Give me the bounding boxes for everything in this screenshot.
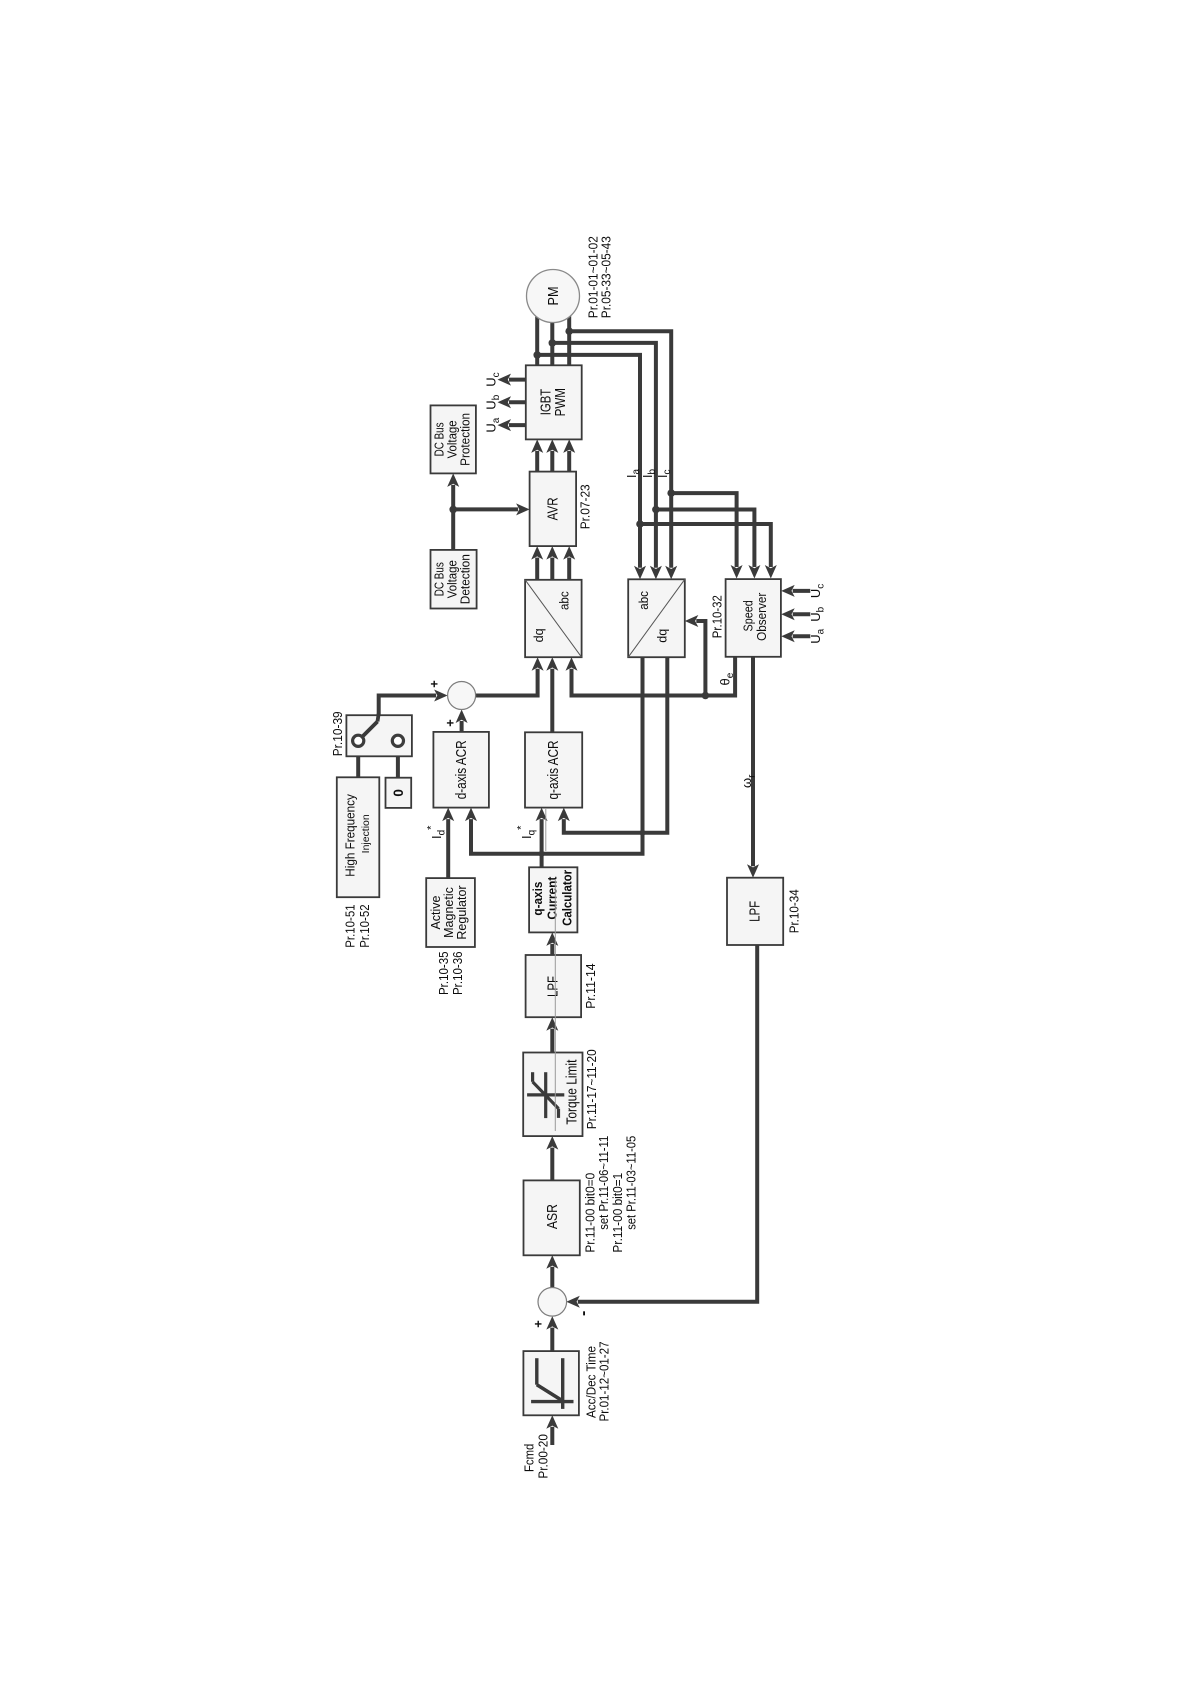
- svg-text:ASR: ASR: [544, 1204, 561, 1229]
- block abc to dq transform: [628, 579, 685, 657]
- wire Id* Active Magnetic Regulator to d-axis ACR: [446, 819, 450, 878]
- svg-text:Pr.05-33~05-43: Pr.05-33~05-43: [599, 236, 614, 318]
- wire IGBT PWM output Ub: [509, 400, 526, 404]
- block AVR: [530, 472, 577, 547]
- wire iq feedback from abc-dq transform to q-axis ACR: [564, 657, 668, 833]
- summing junction 2: [448, 682, 476, 710]
- wire current branch Ic to Speed Observer: [671, 493, 736, 567]
- wire dq-abc to AVR phase c: [567, 558, 571, 580]
- block LPF Pr.11-14: [526, 955, 582, 1017]
- wire AVR to IGBT PWM phase c: [567, 451, 571, 472]
- wire ASR to Torque Limit: [550, 1148, 554, 1181]
- block q-axis Current Calculator: [529, 867, 577, 932]
- svg-text:Active: Active: [429, 895, 443, 929]
- svg-text:dq: dq: [656, 629, 670, 643]
- wire dq-abc to AVR phase a: [535, 558, 539, 580]
- thin connector line near q-axis ACR: [545, 809, 547, 851]
- svg-text:Speed: Speed: [742, 600, 756, 631]
- svg-text:AVR: AVR: [545, 497, 562, 520]
- svg-text:q-axis: q-axis: [531, 882, 545, 916]
- svg-text:High Frequency: High Frequency: [344, 793, 358, 876]
- svg-text:abc: abc: [637, 591, 651, 610]
- svg-text:Pr.10-35: Pr.10-35: [436, 952, 451, 996]
- wire AVR to IGBT PWM phase b: [550, 451, 554, 472]
- wire omega-r Speed Observer to LPF Pr.10-34: [751, 656, 755, 866]
- block zero: [386, 778, 412, 808]
- svg-text:Pr.11-14: Pr.11-14: [583, 963, 598, 1008]
- svg-text:Observer: Observer: [755, 593, 769, 641]
- junction dot tap phase a: [533, 351, 541, 359]
- wire id feedback from abc-dq transform to d-axis ACR: [471, 657, 643, 854]
- wire IGBT PWM to PM motor phase b: [550, 302, 554, 365]
- svg-text:PWM: PWM: [552, 388, 569, 416]
- svg-text:Regulator: Regulator: [455, 885, 469, 939]
- block IGBT PWM: [526, 365, 582, 439]
- svg-text:Pr.11-17~11-20: Pr.11-17~11-20: [584, 1049, 599, 1129]
- wire speed feedback LPF Pr.10-34 to summing junction 1: [578, 945, 757, 1302]
- block DC Bus Voltage Protection: [431, 405, 476, 473]
- svg-text:Injection: Injection: [361, 814, 372, 853]
- wire Ub input to Speed Observer: [793, 612, 811, 616]
- svg-text:Pr.10-34: Pr.10-34: [786, 889, 801, 933]
- svg-text:Protection: Protection: [459, 413, 473, 466]
- switch lever: [361, 722, 378, 739]
- junction dot branch Ic: [667, 489, 675, 497]
- svg-text:Pr.00-20: Pr.00-20: [536, 1434, 551, 1479]
- junction dot iq/id crossing: [640, 830, 646, 836]
- wire theta-e branch to abc-dq transform: [696, 621, 705, 696]
- svg-text:Pr.10-52: Pr.10-52: [357, 904, 372, 947]
- svg-text:q-axis ACR: q-axis ACR: [546, 741, 562, 800]
- block LPF Pr.10-34: [727, 878, 783, 945]
- svg-text:Voltage: Voltage: [446, 420, 460, 458]
- svg-text:Pr.10-32: Pr.10-32: [709, 595, 724, 638]
- svg-text:Voltage: Voltage: [446, 560, 460, 598]
- block Speed Observer: [726, 579, 781, 657]
- svg-text:dq: dq: [532, 628, 546, 642]
- wire IGBT PWM output Uc: [509, 378, 526, 382]
- block ASR: [524, 1180, 580, 1255]
- svg-text:+: +: [427, 680, 442, 688]
- svg-text:Pr.10-51: Pr.10-51: [343, 904, 358, 947]
- junction dot tap phase b: [549, 339, 557, 347]
- wire current branch Ib to Speed Observer: [656, 510, 755, 568]
- wire Torque Limit to LPF: [550, 1029, 554, 1053]
- wire switch to summing junction 2: [379, 696, 436, 716]
- svg-text:Current: Current: [546, 876, 560, 920]
- svg-text:0: 0: [391, 789, 406, 797]
- svg-text:Pr.10-39: Pr.10-39: [330, 711, 345, 756]
- summing junction 1: [538, 1288, 567, 1317]
- svg-text:Magnetic: Magnetic: [442, 887, 456, 938]
- wire LPF to q-axis Current Calculator: [550, 944, 554, 955]
- wire Fcmd input: [550, 1427, 554, 1445]
- svg-text:+: +: [531, 1320, 546, 1328]
- junction dot branch Ia: [636, 520, 644, 528]
- block q-axis ACR: [525, 732, 582, 807]
- PM motor: [527, 270, 580, 323]
- block Active Magnetic Regulator: [426, 878, 475, 947]
- wire Acc/Dec Time to summing junction 1: [550, 1328, 554, 1352]
- wire current Ic tap to abc-dq transform: [569, 331, 671, 568]
- svg-text:Pr.01-12~01-27: Pr.01-12~01-27: [597, 1342, 612, 1422]
- svg-text:LPF: LPF: [545, 976, 562, 997]
- wire dq-abc to AVR phase b: [550, 558, 554, 580]
- wire Iq* q-axis Current Calculator to q-axis ACR: [540, 819, 544, 867]
- wire current Ib tap to abc-dq transform: [552, 343, 656, 568]
- wire 0 block to switch terminal 2: [396, 746, 400, 777]
- wire High Frequency Injection to switch terminal 1: [356, 746, 360, 777]
- wire AVR to IGBT PWM phase a: [535, 451, 539, 472]
- junction dot branch Ib: [652, 506, 660, 514]
- svg-text:LPF: LPF: [747, 901, 764, 922]
- switch terminal 2: [392, 735, 403, 746]
- wire IGBT PWM output Ua: [509, 423, 526, 427]
- wire IGBT PWM to PM motor phase c: [567, 302, 571, 365]
- wire DC bus to AVR: [453, 507, 518, 511]
- wire IGBT PWM to PM motor phase a: [535, 302, 539, 365]
- svg-text:DC Bus: DC Bus: [433, 562, 447, 596]
- svg-text:+: +: [443, 719, 458, 727]
- svg-text:-: -: [575, 1311, 592, 1316]
- svg-text:Pr.07-23: Pr.07-23: [578, 484, 593, 529]
- thin connector line through Torque Limit, LPF and q-axis Current Calculator: [554, 879, 556, 1131]
- svg-text:Torque Limit: Torque Limit: [565, 1060, 581, 1125]
- wire Uc input to Speed Observer: [793, 589, 811, 593]
- block d-axis ACR: [433, 732, 489, 808]
- svg-text:Detection: Detection: [459, 554, 473, 604]
- wire q-axis ACR to dq-abc transform: [550, 669, 554, 733]
- junction dot theta-e branch: [702, 692, 710, 700]
- junction dot Iq*/id crossing: [539, 851, 545, 857]
- wire d-axis ACR to summing junction 2: [460, 721, 464, 732]
- svg-text:set Pr.11-03~11-05: set Pr.11-03~11-05: [624, 1136, 639, 1230]
- svg-text:abc: abc: [558, 591, 572, 610]
- svg-text:d-axis ACR: d-axis ACR: [454, 740, 470, 799]
- block switch Pr.10-39: [346, 715, 412, 756]
- junction dot DC bus: [449, 506, 457, 514]
- block Torque Limit: [523, 1053, 582, 1137]
- wire summing junction 1 to ASR: [550, 1267, 554, 1288]
- svg-text:PM: PM: [546, 287, 562, 306]
- svg-text:DC Bus: DC Bus: [433, 422, 447, 456]
- wire current branch Ia to Speed Observer: [640, 524, 771, 567]
- block dq to abc transform: [525, 580, 582, 657]
- block DC Bus Voltage Detection: [431, 550, 477, 609]
- wire DC Bus Voltage Detection to Protection: [451, 485, 455, 550]
- wire current Ia tap to abc-dq transform: [537, 355, 640, 568]
- svg-text:Calculator: Calculator: [561, 870, 575, 926]
- junction dot tap phase c: [565, 327, 573, 335]
- wire summing junction 2 output Vd to dq-abc transform: [476, 669, 538, 696]
- switch terminal 1: [353, 735, 364, 746]
- svg-text:set Pr.11-06~11-11: set Pr.11-06~11-11: [596, 1136, 611, 1230]
- svg-text:Fcmd: Fcmd: [522, 1444, 537, 1472]
- block High Frequency Injection: [337, 777, 380, 897]
- svg-text:Pr.10-36: Pr.10-36: [450, 952, 465, 996]
- wire theta-e Speed Observer to dq-abc transform: [572, 656, 736, 695]
- block Acc/Dec Time: [523, 1351, 579, 1415]
- wire Ua input to Speed Observer: [793, 634, 811, 638]
